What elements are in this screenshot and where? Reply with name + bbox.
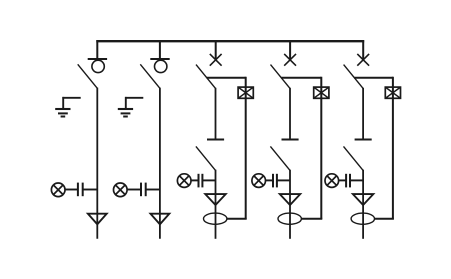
- wire: feeder 5 lower main: [362, 170, 364, 239]
- wire: branch tap F5: [354, 77, 393, 79]
- wire: feeder 4 lower main: [289, 170, 291, 239]
- fuse box FU5: [385, 87, 400, 98]
- wire: feeder 4 drop: [289, 40, 291, 60]
- bottom contact bar F4: [282, 138, 299, 140]
- breaker blade QF5: [344, 65, 364, 89]
- breaker blade QF4: [271, 65, 291, 89]
- indicator lamp HL2: [114, 183, 128, 197]
- wire: feeder 1 main: [96, 88, 98, 239]
- wire: feeder 3 lower main: [215, 170, 217, 239]
- fixed contact circle QS1: [92, 60, 104, 72]
- wire: capacitor to main F1: [83, 189, 98, 191]
- capacitor C3: [199, 174, 203, 188]
- cable termination triangle F2: [151, 214, 170, 225]
- indicator lamp HL3: [177, 174, 191, 188]
- disconnector blade QS3: [196, 146, 216, 170]
- cable termination triangle F4: [280, 194, 300, 205]
- wire: lamp branch F5: [339, 179, 347, 181]
- capacitor C4: [273, 174, 277, 188]
- breaker contact X F3: [210, 54, 222, 66]
- breaker contact X F5: [357, 54, 369, 66]
- wire: feeder 2 main: [159, 88, 161, 239]
- wire: feeder 3 drop: [215, 40, 217, 60]
- wire: feeder 4 upper main: [289, 88, 291, 140]
- wire: feeder 2 drop: [159, 40, 161, 60]
- bottom contact bar F5: [355, 138, 372, 140]
- wire: capacitor to main F3: [202, 179, 215, 181]
- disconnector blade QS4: [270, 146, 290, 170]
- wire: ellipse to branch F5: [375, 218, 394, 220]
- disconnector blade QS1: [78, 64, 98, 88]
- fuse box FU3: [238, 87, 253, 98]
- wire: feeder 3 upper main: [215, 88, 217, 140]
- disconnector blade QS5: [344, 146, 364, 170]
- breaker blade QF3: [196, 65, 216, 89]
- disconnector blade QS2: [140, 64, 160, 88]
- bottom contact bar F3: [207, 138, 224, 140]
- capacitor C5: [346, 174, 350, 188]
- current transformer ellipse F5: [351, 213, 374, 224]
- wire: capacitor to main F5: [350, 179, 363, 181]
- capacitor C2: [141, 183, 146, 197]
- wire: ellipse to branch F3: [227, 218, 247, 220]
- capacitor C1: [78, 183, 83, 197]
- current transformer ellipse F3: [204, 213, 227, 224]
- wire: capacitor to main F2: [146, 189, 160, 191]
- breaker contact X F4: [284, 54, 296, 66]
- wire: capacitor to main F4: [277, 179, 290, 181]
- wire: feeder 1 drop: [96, 40, 98, 60]
- indicator lamp HL4: [252, 174, 266, 188]
- fixed contact circle QS2: [155, 60, 167, 72]
- wire: fuse branch vertical F4: [320, 77, 322, 219]
- cable termination triangle F3: [205, 194, 225, 205]
- wire: lamp branch F1: [65, 189, 78, 191]
- wire: fuse branch vertical F3: [245, 77, 247, 219]
- busbar: [96, 40, 364, 42]
- cable termination triangle F5: [353, 194, 373, 205]
- fuse box FU4: [314, 87, 329, 98]
- fixed contact bar QS2: [150, 58, 169, 60]
- wire: lamp branch F4: [266, 179, 274, 181]
- ground 1: [55, 97, 80, 117]
- indicator lamp HL1: [51, 183, 65, 197]
- cable termination triangle F1: [88, 214, 107, 225]
- fixed contact bar QS1: [88, 58, 107, 60]
- indicator lamp HL5: [325, 174, 339, 188]
- wire: branch tap F3: [207, 77, 246, 79]
- wire: feeder 5 drop: [362, 40, 364, 60]
- current transformer ellipse F4: [278, 213, 301, 224]
- wire: ellipse to branch F4: [301, 218, 322, 220]
- wire: lamp branch F3: [191, 179, 199, 181]
- ground 2: [118, 97, 144, 117]
- wire: lamp branch F2: [127, 189, 141, 191]
- wire: branch tap F4: [281, 77, 321, 79]
- wire: fuse branch vertical F5: [392, 77, 394, 219]
- wire: feeder 5 upper main: [362, 88, 364, 140]
